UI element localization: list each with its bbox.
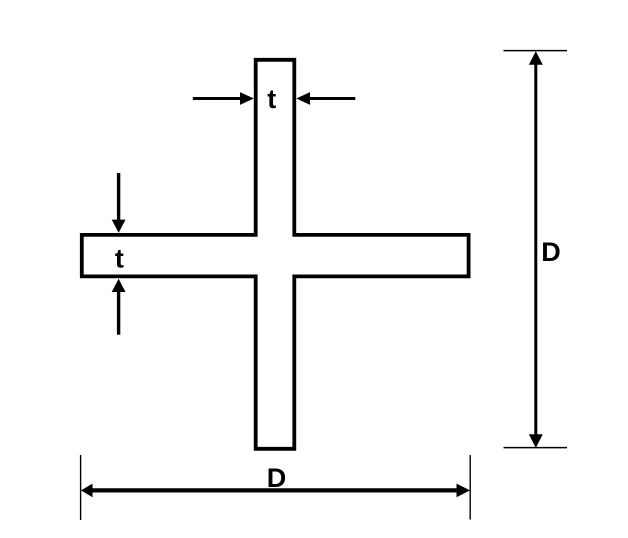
- bottom dimension D: right extension tick: [469, 455, 471, 520]
- top thickness leader arrow right (pointing left): [309, 97, 355, 100]
- svg-text:t: t: [267, 84, 276, 114]
- bottom dimension D: left extension tick: [80, 455, 82, 520]
- bottom dimension D: horizontal double-headed arrow: [90, 488, 461, 492]
- left thickness leader arrow down (pointing down): [117, 173, 120, 221]
- right dimension D: bottom extension tick: [504, 447, 568, 449]
- svg-text:t: t: [115, 243, 124, 273]
- svg-text:D: D: [267, 463, 287, 493]
- svg-text:D: D: [541, 237, 561, 267]
- right dimension D: top extension tick: [504, 50, 568, 52]
- left thickness leader arrow up (pointing up): [117, 291, 120, 335]
- right dimension D: vertical double-headed arrow: [534, 63, 537, 436]
- top thickness leader arrow left (pointing right): [193, 97, 241, 100]
- cross-section outline (plus shape): [82, 60, 469, 449]
